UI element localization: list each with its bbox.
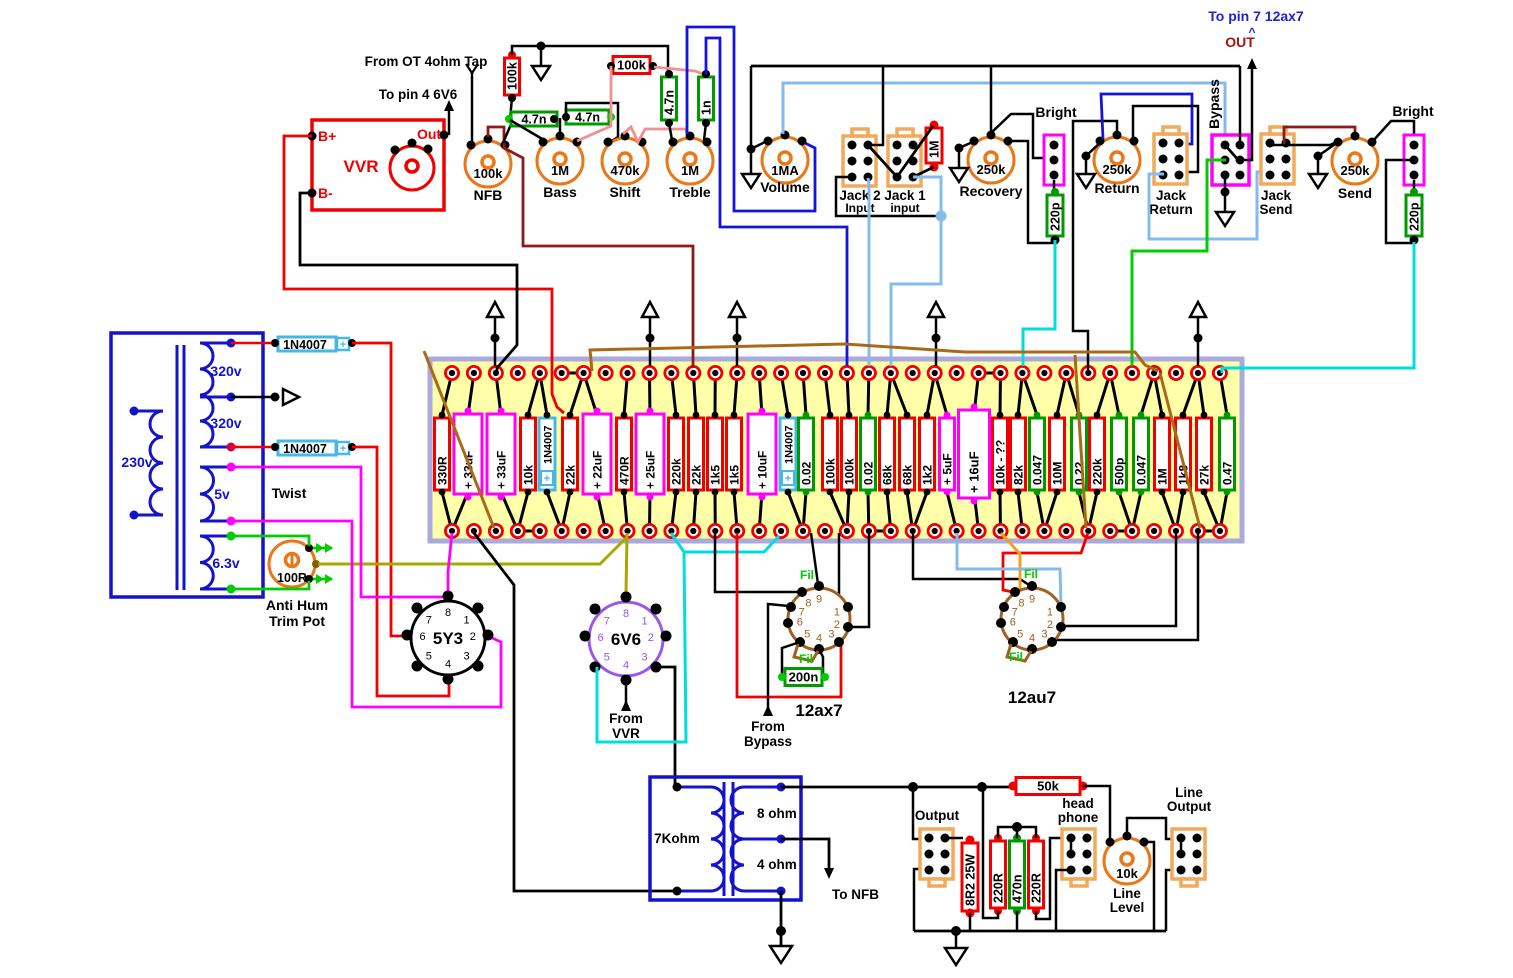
svg-text:330R: 330R — [436, 456, 450, 485]
board component lead wires — [442, 373, 452, 415]
anti-hum trim pot 100R — [269, 541, 315, 587]
svg-text:22k: 22k — [690, 465, 704, 485]
red wire board to 12au7 pin8 — [1003, 533, 1088, 592]
attenuator top bracket — [998, 827, 1036, 838]
svg-text:Return: Return — [1149, 202, 1193, 217]
svg-text:10k: 10k — [1116, 866, 1138, 881]
svg-text:phone: phone — [1058, 810, 1099, 825]
svg-text:470k: 470k — [611, 163, 641, 178]
black bus top — [751, 65, 1240, 68]
electrolytic cap + 10uF — [748, 414, 776, 494]
svg-text:3: 3 — [642, 651, 648, 663]
resistor 1k8 — [1176, 418, 1191, 490]
svg-text:Fil: Fil — [1024, 567, 1038, 581]
orange wire board to 12au7 pin6 — [1001, 533, 1020, 622]
sky wire jack return to jack send — [1149, 172, 1268, 239]
svg-text:7: 7 — [604, 615, 610, 627]
svg-text:2: 2 — [648, 632, 654, 644]
olive heater wire to 6V6 pin 8 — [318, 537, 627, 564]
svg-text:Bright: Bright — [1035, 104, 1077, 120]
tube 12au7 — [996, 581, 1066, 707]
svg-text:To NFB: To NFB — [832, 887, 879, 902]
svg-text:1k5: 1k5 — [709, 465, 723, 485]
potentiometer Volume 1MA — [760, 131, 810, 196]
svg-text:6: 6 — [797, 616, 803, 628]
svg-text:From: From — [751, 719, 785, 734]
svg-text:B-: B- — [318, 185, 333, 201]
svg-text:7: 7 — [426, 614, 432, 626]
To pin 4 6V6 arrow — [448, 106, 451, 135]
svg-text:220R: 220R — [992, 873, 1006, 903]
capacitor 0.22 — [1072, 418, 1087, 490]
svg-text:Line: Line — [1113, 886, 1141, 901]
turret link wires — [562, 372, 584, 375]
resistor 27k — [1197, 418, 1212, 490]
svg-text:5: 5 — [426, 650, 432, 662]
volume left wire + ground — [750, 66, 753, 149]
svg-text:1n: 1n — [700, 100, 714, 115]
potentiometer Shift 470k — [602, 132, 648, 201]
ground bus bottom — [914, 930, 1166, 933]
line output jack — [1172, 829, 1205, 886]
long black wire board to OT — [474, 533, 675, 891]
send right wiring — [1372, 121, 1414, 143]
svg-text:6V6: 6V6 — [611, 630, 641, 649]
svg-text:Send: Send — [1338, 185, 1372, 201]
svg-text:Return: Return — [1094, 180, 1139, 196]
resistor 100k — [842, 418, 857, 490]
green arrows — [313, 547, 332, 550]
OT primary — [711, 787, 724, 891]
resistor 100k (NFB divider) — [505, 58, 520, 95]
resistor 8R2 25W — [945, 837, 963, 840]
OUT arrow — [1240, 66, 1252, 160]
svg-text:7Kohm: 7Kohm — [654, 831, 700, 846]
primary winding 230v — [150, 411, 163, 515]
svg-text:1M: 1M — [928, 141, 942, 158]
cyan wire 220p send to board — [1222, 242, 1414, 373]
capacitor 4.7n (a) — [510, 98, 512, 119]
brown wires — [424, 351, 494, 528]
svg-text:12ax7: 12ax7 — [795, 701, 842, 720]
wire D1 to 5Y3 pin6 (red) — [352, 343, 404, 636]
capacitor 0.047 — [1134, 418, 1149, 490]
svg-text:230v: 230v — [121, 454, 152, 470]
wire D2 to 5Y3 pin4 (red) — [352, 447, 449, 696]
svg-text:Recovery: Recovery — [959, 183, 1022, 199]
svg-text:1M: 1M — [1156, 468, 1170, 485]
VVR pot — [390, 146, 434, 190]
svg-text:5Y3: 5Y3 — [433, 629, 463, 648]
svg-text:Shift: Shift — [609, 184, 640, 200]
resistor 10k — [521, 418, 536, 490]
potentiometer NFB 100k — [465, 135, 511, 204]
blue wire return — [1101, 94, 1192, 144]
svg-text:+ 33uF: + 33uF — [495, 451, 509, 489]
svg-text:27k: 27k — [1198, 465, 1212, 485]
svg-text:+ 10uF: + 10uF — [756, 451, 770, 489]
svg-text:Level: Level — [1110, 900, 1145, 915]
svg-text:Bright: Bright — [1392, 103, 1434, 119]
pink wires tone stack — [577, 66, 611, 141]
6V6 pin4 From VVR — [625, 680, 628, 708]
svg-text:0.02: 0.02 — [862, 461, 876, 485]
svg-text:Bypass: Bypass — [744, 734, 792, 749]
svg-text:1k2: 1k2 — [921, 465, 935, 485]
capacitor 1n vertical — [699, 77, 714, 120]
svg-text:8: 8 — [1018, 597, 1024, 609]
resistor 68k — [880, 418, 895, 490]
sky wire board to 12au7 pin1 — [957, 533, 1061, 606]
svg-text:Treble: Treble — [669, 184, 710, 200]
svg-text:9: 9 — [1029, 594, 1035, 606]
capacitor 0.047 — [1030, 418, 1045, 490]
sky wire volume wiper to bypass — [783, 83, 1225, 143]
top ground wire — [512, 46, 668, 74]
svg-text:220p: 220p — [1408, 202, 1422, 231]
diode D1 1N4007 — [231, 342, 278, 345]
svg-text:100k: 100k — [843, 458, 857, 485]
svg-text:0.047: 0.047 — [1135, 455, 1149, 485]
resistor 1M — [926, 128, 942, 163]
svg-text:68k: 68k — [901, 465, 915, 485]
OT secondary — [731, 787, 744, 891]
svg-text:Fil: Fil — [799, 652, 813, 666]
magenta heater wires 5Y3 — [231, 467, 444, 597]
red wire board to 12ax7 pin3 — [737, 533, 841, 697]
svg-text:320v: 320v — [210, 415, 241, 431]
black bus OT to 50k — [781, 786, 1012, 789]
output jack wires — [913, 787, 928, 839]
headphone jack — [1062, 829, 1095, 886]
capacitor 470n — [1010, 841, 1025, 908]
resistor 220k — [669, 418, 684, 490]
svg-text:+: + — [340, 339, 346, 351]
svg-text:100R: 100R — [277, 571, 307, 585]
svg-text:To pin 4 6V6: To pin 4 6V6 — [379, 87, 458, 102]
svg-text:82k: 82k — [1012, 465, 1026, 485]
svg-text:0.47: 0.47 — [1221, 461, 1235, 485]
capacitor 220p (send) — [1413, 180, 1416, 195]
capacitor 4.7n vertical — [662, 77, 677, 120]
svg-text:22k: 22k — [564, 465, 578, 485]
transformer core — [176, 345, 179, 590]
svg-text:Line: Line — [1175, 785, 1203, 800]
svg-text:6: 6 — [420, 631, 426, 643]
svg-text:9: 9 — [816, 594, 822, 606]
svg-text:50k: 50k — [1037, 779, 1059, 794]
12au7 wires — [913, 533, 1029, 585]
potentiometer Return 250k — [1094, 131, 1140, 197]
capacitor 0.02 — [861, 418, 876, 490]
NFB right terminal wire — [503, 122, 512, 143]
svg-text:68k: 68k — [881, 465, 895, 485]
cyan wire 220p to board — [1023, 240, 1055, 366]
maroon wire jack send to send pot — [1284, 127, 1355, 144]
svg-text:6.3v: 6.3v — [212, 555, 239, 571]
svg-text:10k: 10k — [522, 465, 536, 485]
potentiometer None 10k — [1104, 832, 1150, 885]
wire 320v center tap to arrow — [231, 396, 275, 399]
svg-text:1MA: 1MA — [771, 163, 799, 178]
jack wires — [869, 66, 883, 145]
svg-text:Twist: Twist — [272, 485, 307, 501]
diode 1N4007 — [539, 418, 555, 490]
secondary 5v winding — [200, 467, 214, 521]
svg-text:To pin 7 12ax7: To pin 7 12ax7 — [1208, 8, 1304, 24]
jack return — [1154, 127, 1187, 184]
svg-text:+: + — [785, 473, 791, 485]
resistor 22k — [563, 418, 578, 490]
svg-text:200n: 200n — [789, 670, 819, 685]
svg-text:8: 8 — [805, 597, 811, 609]
secondary 320v windings — [200, 343, 213, 447]
svg-text:Fil: Fil — [1009, 650, 1023, 664]
svg-text:+ 22uF: + 22uF — [591, 451, 605, 489]
svg-text:4 ohm: 4 ohm — [757, 857, 797, 872]
svg-text:NFB: NFB — [474, 187, 503, 203]
potentiometer Recovery 250k — [959, 131, 1022, 200]
svg-text:320v: 320v — [210, 363, 241, 379]
resistor 10k - ?? — [993, 418, 1008, 490]
resistor 220k — [1090, 418, 1105, 490]
resistor 1k2 — [920, 418, 935, 490]
svg-text:100k: 100k — [617, 58, 647, 73]
blue wire treble to volume — [687, 27, 815, 211]
svg-text:2: 2 — [470, 631, 476, 643]
jack send — [1261, 127, 1294, 184]
svg-text:Bypass: Bypass — [1206, 79, 1222, 129]
electrolytic cap + 16uF — [959, 410, 990, 498]
svg-text:470n: 470n — [1011, 875, 1025, 904]
svg-text:12au7: 12au7 — [1008, 688, 1056, 707]
capacitor 0.02 — [799, 418, 814, 490]
12ax7 wires — [715, 533, 800, 592]
svg-text:4.7n: 4.7n — [575, 111, 600, 125]
svg-text:+ 16uF: + 16uF — [967, 451, 982, 493]
From Bypass wire — [768, 604, 789, 712]
svg-text:VVR: VVR — [612, 726, 640, 741]
tube 6V6 — [580, 592, 672, 686]
bracket wire bass caps — [566, 103, 618, 142]
capacitor 200n — [782, 642, 800, 674]
svg-text:Output: Output — [915, 808, 960, 823]
svg-text:100k: 100k — [506, 62, 520, 90]
resistor 100k — [823, 418, 838, 490]
electrolytic cap + 33uF — [454, 414, 482, 494]
svg-text:1M: 1M — [681, 163, 699, 178]
svg-text:8R2 25W: 8R2 25W — [964, 854, 978, 906]
svg-text:6: 6 — [598, 632, 604, 644]
svg-text:head: head — [1062, 796, 1094, 811]
potentiometer Treble 1M — [667, 132, 713, 201]
line level wiring — [1127, 818, 1180, 839]
resistor 470R — [617, 418, 632, 490]
svg-text:4: 4 — [445, 658, 451, 670]
cyan wire 6V6 pin5 to board — [671, 533, 779, 552]
svg-text:2: 2 — [834, 619, 840, 631]
tube 12ax7 — [783, 581, 853, 720]
capacitor 4.7n (b) — [566, 110, 609, 125]
svg-text:5: 5 — [804, 628, 810, 640]
B+ feed arrows — [487, 302, 503, 317]
svg-text:100k: 100k — [824, 458, 838, 485]
svg-text:6: 6 — [1010, 616, 1016, 628]
svg-text:250k: 250k — [1103, 162, 1133, 177]
output transformer — [650, 777, 801, 900]
svg-text:4: 4 — [623, 659, 629, 671]
resistor 82k — [1011, 418, 1026, 490]
electrolytic cap + 5uF — [940, 418, 955, 490]
svg-text:470R: 470R — [618, 456, 632, 485]
svg-text:4.7n: 4.7n — [521, 113, 546, 127]
svg-text:1: 1 — [834, 607, 840, 619]
svg-text:1: 1 — [642, 615, 648, 627]
svg-text:500p: 500p — [1113, 458, 1127, 485]
send ground — [1318, 142, 1338, 156]
svg-text:1k5: 1k5 — [728, 465, 742, 485]
svg-text:0.047: 0.047 — [1031, 455, 1045, 485]
svg-text:10M: 10M — [1051, 462, 1065, 485]
svg-text:VVR: VVR — [344, 157, 379, 176]
VVR box — [312, 120, 444, 210]
wire From OT 4ohm Tap — [471, 72, 474, 144]
attenuator bottom wires — [983, 787, 998, 918]
wire 4.7n to Bass left — [510, 120, 544, 140]
tube 5Y3 — [402, 591, 494, 685]
svg-text:Volume: Volume — [760, 179, 810, 195]
svg-text:4: 4 — [1029, 633, 1035, 645]
recovery wiring — [990, 66, 993, 132]
output jack — [920, 829, 953, 886]
svg-text:220R: 220R — [1030, 873, 1044, 903]
50k to line level pot — [1083, 786, 1110, 840]
svg-text:B+: B+ — [318, 128, 336, 144]
svg-text:250k: 250k — [977, 162, 1007, 177]
potentiometer Bass 1M — [537, 132, 583, 201]
svg-text:+ 33uF: + 33uF — [462, 451, 476, 489]
svg-text:4: 4 — [816, 633, 822, 645]
svg-text:From: From — [609, 711, 643, 726]
svg-text:250k: 250k — [1341, 163, 1371, 178]
svg-text:1N4007: 1N4007 — [283, 338, 327, 352]
maroon wire NFB wiper to board — [488, 127, 693, 368]
OT ground — [780, 891, 783, 946]
B- black wire to board — [300, 193, 517, 373]
svg-text:Bass: Bass — [543, 184, 577, 200]
bypass ground — [1224, 177, 1227, 212]
magenta wire board to 5Y3 pin8 — [448, 533, 452, 592]
blue wire 1n to board — [706, 38, 847, 366]
svg-text:Jack: Jack — [1156, 188, 1187, 203]
svg-text:Anti Hum: Anti Hum — [266, 597, 328, 613]
svg-text:Trim Pot: Trim Pot — [269, 613, 325, 629]
resistor 220R (a) — [991, 841, 1006, 908]
svg-text:0.02: 0.02 — [800, 461, 814, 485]
svg-text:+ 25uF: + 25uF — [644, 451, 658, 489]
jack 2 input — [843, 129, 876, 186]
potentiometer Send 250k — [1332, 132, 1378, 202]
resistor 22k — [689, 418, 704, 490]
green heater wires — [231, 536, 309, 546]
svg-text:+: + — [340, 443, 346, 455]
svg-text:1: 1 — [464, 614, 470, 626]
svg-text:1M: 1M — [551, 163, 569, 178]
svg-text:8 ohm: 8 ohm — [757, 806, 797, 821]
svg-text:8: 8 — [445, 607, 451, 619]
svg-text:5: 5 — [604, 651, 610, 663]
svg-text:220k: 220k — [670, 458, 684, 485]
capacitor 500p — [1112, 418, 1127, 490]
svg-text:220k: 220k — [1091, 458, 1105, 485]
secondary 6.3v winding — [200, 536, 213, 589]
svg-text:input: input — [890, 201, 919, 215]
svg-text:Fil: Fil — [800, 568, 814, 582]
svg-text:1: 1 — [1047, 607, 1053, 619]
electrolytic cap + 22uF — [583, 414, 611, 494]
svg-text:1N4007: 1N4007 — [283, 442, 327, 456]
svg-text:4.7n: 4.7n — [663, 90, 677, 115]
svg-text:10k - ??: 10k - ?? — [994, 440, 1008, 485]
green wire bypass to board — [1132, 160, 1226, 366]
resistor 1M — [1155, 418, 1170, 490]
resistor 1k5 — [708, 418, 723, 490]
diode 1N4007 — [780, 418, 796, 490]
svg-text:+: + — [544, 473, 550, 485]
svg-text:Send: Send — [1259, 202, 1292, 217]
svg-text:^: ^ — [1248, 25, 1255, 39]
capacitor 220p — [1053, 180, 1056, 195]
resistor 68k — [900, 418, 915, 490]
turrets — [445, 366, 458, 379]
jack 1 input — [888, 129, 921, 186]
svg-text:Output: Output — [1167, 799, 1212, 814]
resistor 100k (treble) — [613, 57, 650, 74]
svg-text:100k: 100k — [474, 166, 504, 181]
svg-text:220p: 220p — [1049, 202, 1063, 231]
black wire jack send — [1270, 140, 1341, 145]
resistor 330R — [435, 418, 450, 490]
svg-text:5: 5 — [1017, 628, 1023, 640]
resistor 10M — [1050, 418, 1065, 490]
electrolytic cap + 33uF — [487, 414, 515, 494]
svg-text:2: 2 — [1047, 619, 1053, 631]
capacitor 0.47 — [1220, 418, 1235, 490]
svg-text:1N4007: 1N4007 — [784, 425, 796, 464]
svg-text:5v: 5v — [214, 486, 230, 502]
turret board — [430, 359, 1242, 541]
6V6 pin3 wire to OT — [656, 667, 675, 785]
svg-text:Out: Out — [417, 126, 441, 142]
svg-text:3: 3 — [464, 650, 470, 662]
resistor 50k — [1016, 778, 1080, 795]
return wiring — [1073, 121, 1117, 373]
resistor 220R (b) — [1029, 841, 1044, 908]
svg-text:8: 8 — [623, 608, 629, 620]
svg-text:Jack: Jack — [1261, 188, 1292, 203]
svg-text:+ 5uF: + 5uF — [941, 453, 955, 485]
B+ red wire to board — [284, 136, 564, 413]
electrolytic cap + 25uF — [636, 414, 664, 494]
power transformer — [111, 333, 263, 597]
svg-text:1N4007: 1N4007 — [543, 425, 555, 464]
diode D2 1N4007 — [231, 446, 278, 449]
sky wires jacks to board — [868, 178, 869, 366]
To NFB arrow — [781, 839, 829, 870]
resistor 1k5 — [727, 418, 742, 490]
